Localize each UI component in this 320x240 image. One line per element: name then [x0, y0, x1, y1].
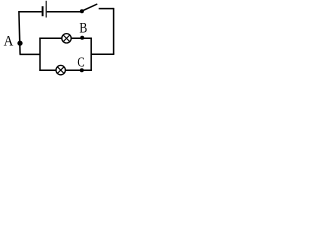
node dot right of lamp B: [80, 36, 84, 40]
wire: top-left horizontal from corner to battery: [19, 11, 42, 13]
label A: [4, 34, 15, 50]
switch S lever (open): [83, 4, 97, 10]
wire: top horizontal from battery to switch: [47, 11, 81, 13]
wire: bottom-right horizontal from corner to branch join: [91, 53, 114, 55]
svg-text:A: A: [4, 34, 15, 50]
svg-text:C: C: [77, 54, 84, 70]
node A junction dot: [17, 41, 22, 46]
wire: left horizontal at mid level from left vertical to branch split: [20, 53, 41, 55]
wire: left vertical from top-left corner down through node A to lower-left corner: [19, 11, 20, 54]
lamp C symbol (circle with X): [56, 65, 65, 74]
wire: lamp C row left segment: [39, 69, 56, 71]
node dot right of lamp C: [80, 68, 84, 72]
battery positive plate (long thin): [45, 1, 47, 18]
wire: left branch vertical (split between lamp B row and lamp C row): [39, 38, 41, 71]
wire: lamp C row right segment: [65, 69, 91, 71]
label B: [79, 19, 87, 36]
battery negative plate (short thick): [42, 6, 44, 16]
wire: right branch vertical joining lamp B row and lamp C row: [90, 38, 92, 71]
wire: lamp B row left segment: [39, 37, 61, 39]
switch S pivot dot: [80, 9, 84, 13]
svg-text:B: B: [79, 19, 87, 36]
lamp B symbol (circle with X): [62, 34, 71, 43]
wire: top-right horizontal from switch to top-right corner: [99, 8, 114, 10]
wire: lamp B row right segment: [71, 37, 92, 39]
wire: right vertical from top-right corner down to bottom-right corner: [113, 8, 115, 54]
label C: [77, 54, 84, 70]
